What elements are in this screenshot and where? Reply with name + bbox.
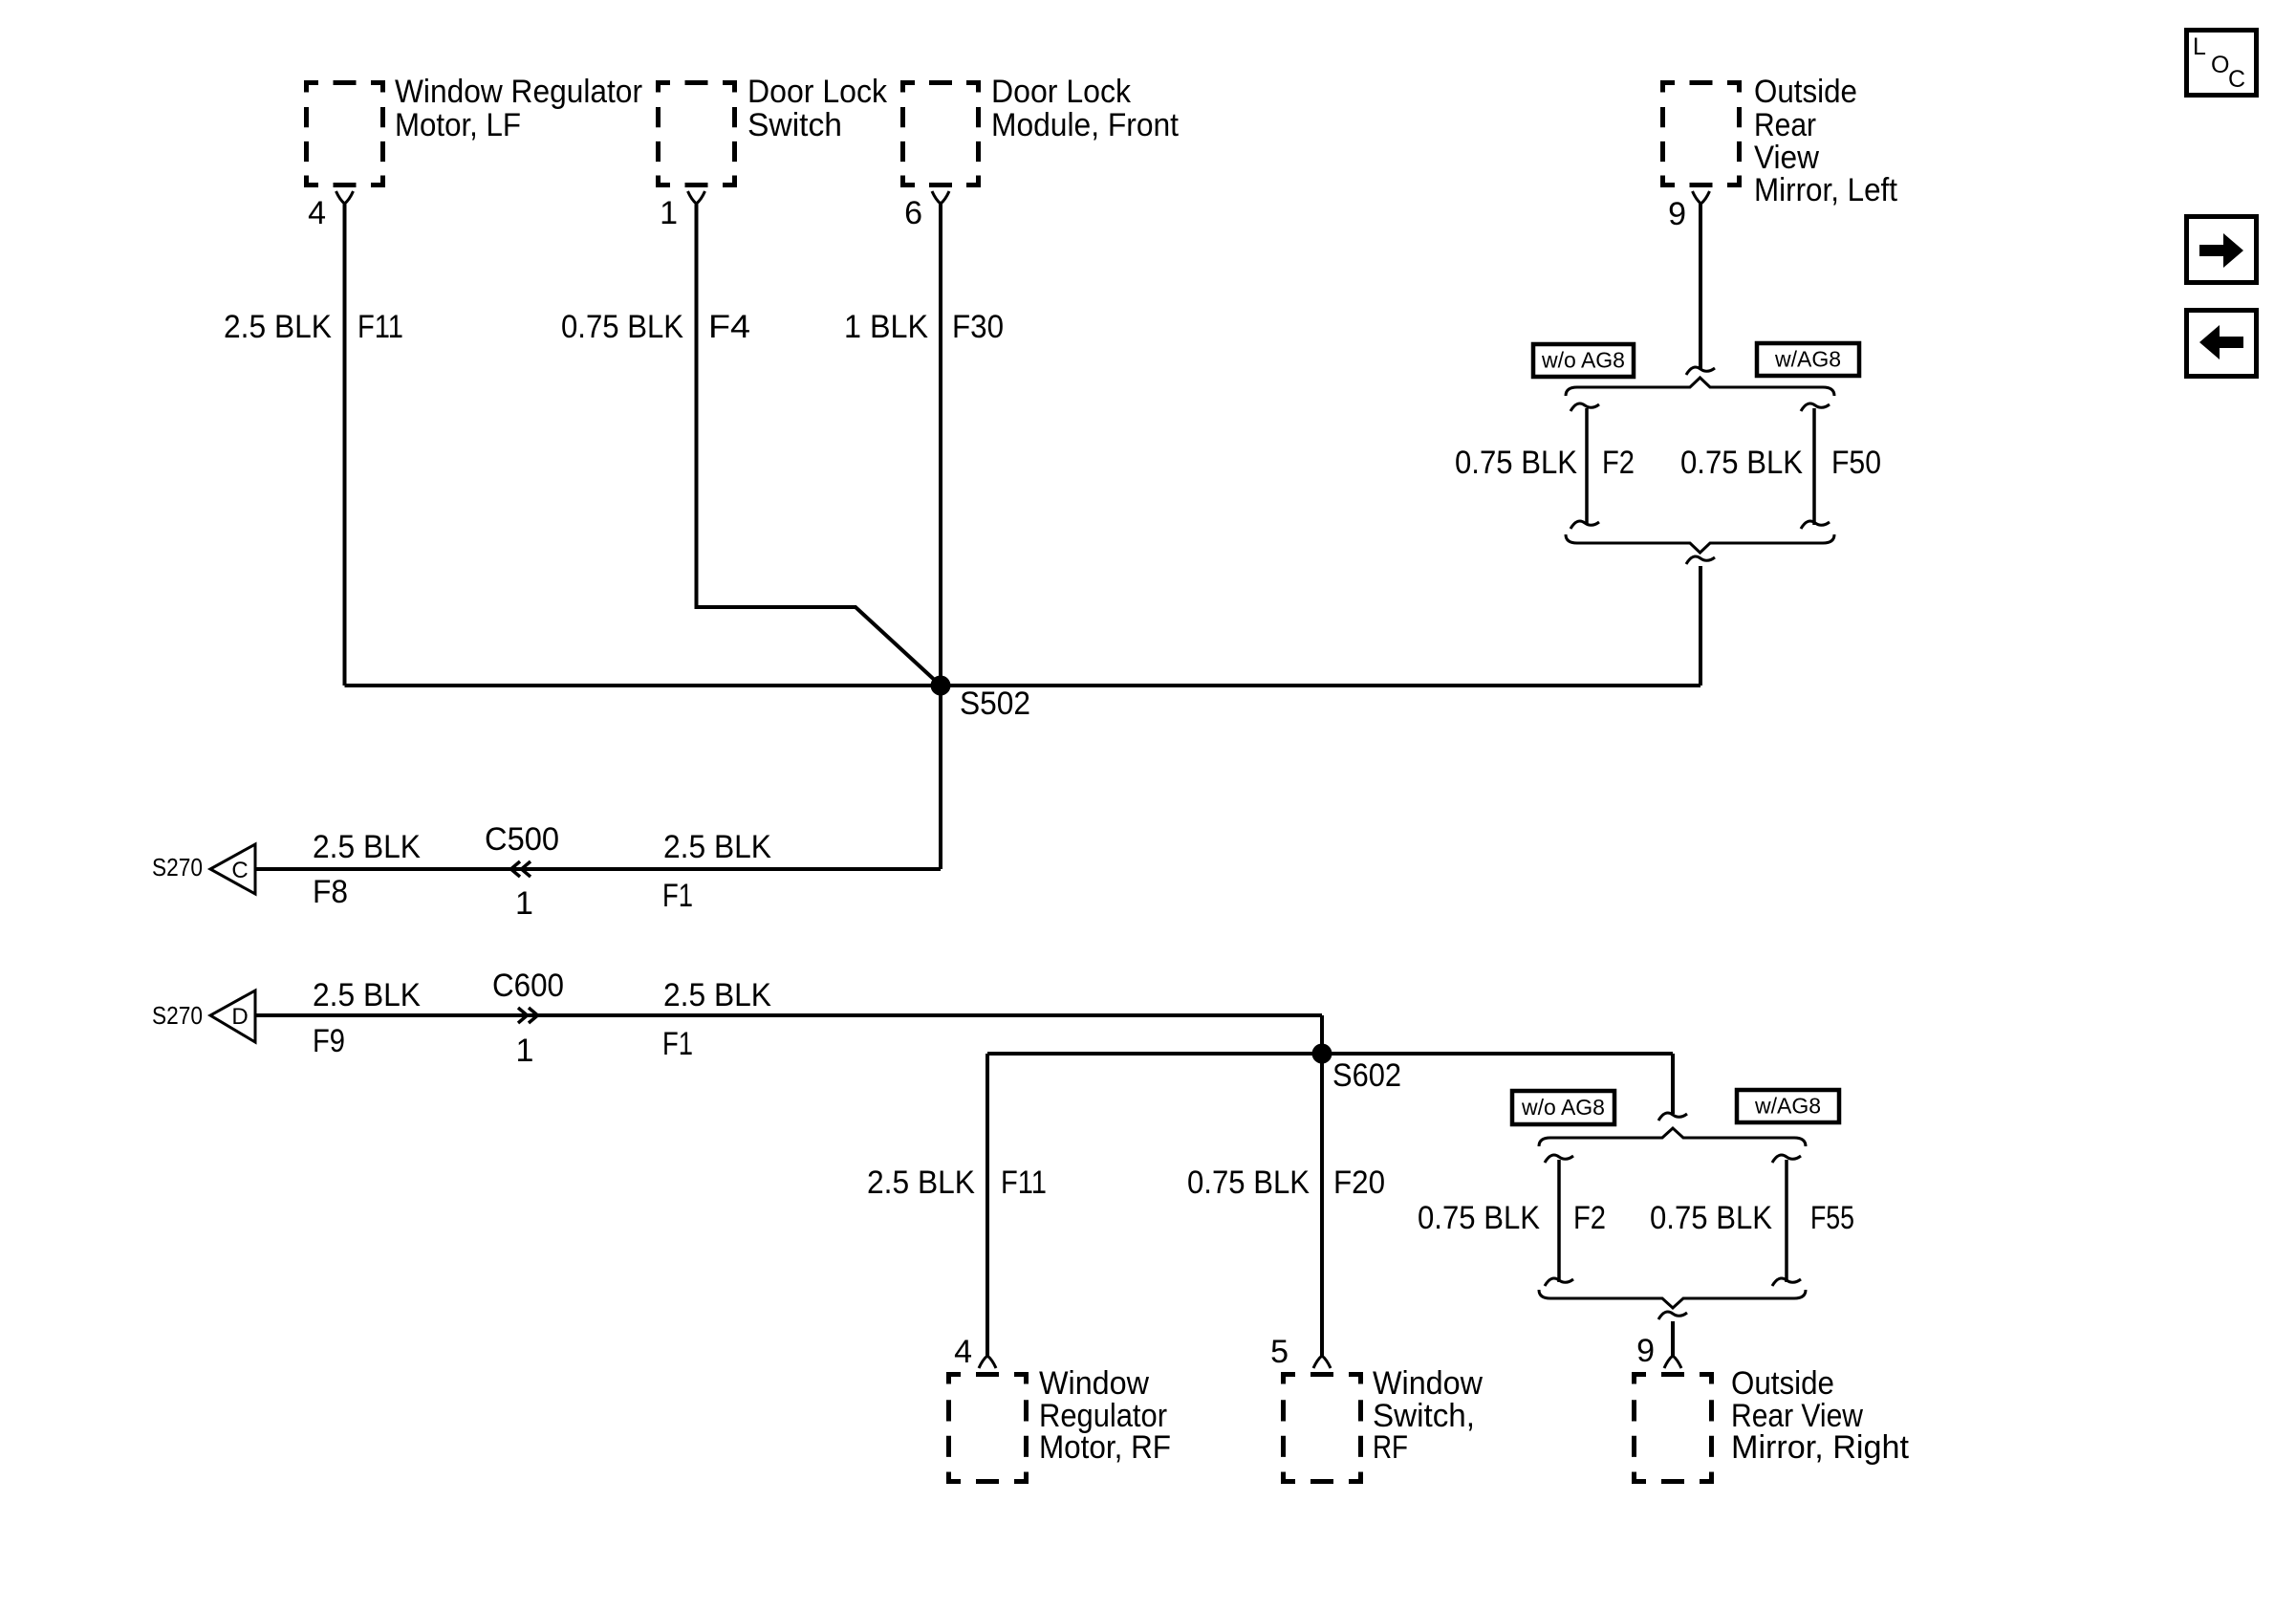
svg-text:F1: F1 xyxy=(662,1026,693,1062)
outside rear view mirror left box xyxy=(1660,80,1742,187)
svg-text:0.75 BLK: 0.75 BLK xyxy=(1680,445,1803,481)
alt wire F2 (bottom group) xyxy=(1545,1155,1573,1163)
svg-text:S502: S502 xyxy=(960,686,1030,722)
svg-text:1: 1 xyxy=(516,1033,534,1069)
svg-text:F30: F30 xyxy=(952,309,1004,345)
svg-text:2.5 BLK: 2.5 BLK xyxy=(313,977,421,1013)
connector marker C600 (double chevron right) xyxy=(518,1008,538,1023)
door lock switch box xyxy=(656,80,737,187)
right arrow nav box xyxy=(2187,217,2257,283)
option box w/o AG8 (bottom) xyxy=(1512,1091,1614,1124)
svg-text:F4: F4 xyxy=(708,309,750,345)
window regulator motor RF box xyxy=(946,1372,1029,1484)
svg-text:S270: S270 xyxy=(152,853,203,882)
pin 1 door lock switch xyxy=(688,191,705,204)
junction S502 xyxy=(931,676,951,696)
wire to bottom option group xyxy=(1671,1054,1675,1114)
break squiggle above mirror right pin xyxy=(1658,1312,1687,1319)
svg-text:C: C xyxy=(231,858,248,883)
S602 ground rail xyxy=(987,1052,1673,1056)
alt wire F2 (top group) xyxy=(1570,403,1599,411)
svg-text:9: 9 xyxy=(1636,1333,1655,1369)
svg-text:S270: S270 xyxy=(152,1001,203,1030)
svg-text:0.75 BLK: 0.75 BLK xyxy=(1455,445,1577,481)
svg-text:Mirror, Left: Mirror, Left xyxy=(1754,172,1898,208)
svg-text:Window Regulator: Window Regulator xyxy=(395,74,642,110)
svg-text:2.5 BLK: 2.5 BLK xyxy=(867,1165,975,1201)
svg-text:RF: RF xyxy=(1373,1429,1408,1466)
bottom brace of option group (opens up) xyxy=(1566,534,1834,553)
wire F11 down to window regulator motor RF xyxy=(986,1054,989,1356)
svg-text:2.5 BLK: 2.5 BLK xyxy=(224,309,332,345)
svg-text:Door Lock: Door Lock xyxy=(747,74,888,110)
connector triangle C (to S270) xyxy=(210,844,255,894)
svg-text:0.75 BLK: 0.75 BLK xyxy=(1650,1200,1772,1236)
svg-text:w/o AG8: w/o AG8 xyxy=(1521,1095,1605,1120)
svg-text:w/AG8: w/AG8 xyxy=(1774,347,1841,372)
left arrow nav box xyxy=(2187,311,2257,377)
break squiggle below top option group xyxy=(1686,556,1715,564)
svg-text:F2: F2 xyxy=(1602,445,1635,481)
svg-text:1: 1 xyxy=(660,195,678,231)
outside rear view mirror right box xyxy=(1632,1372,1714,1484)
junction S602 xyxy=(1312,1044,1332,1064)
svg-text:Switch: Switch xyxy=(747,107,842,143)
wire to mirror right pin 9 xyxy=(1671,1321,1675,1356)
door lock module front box xyxy=(900,80,981,187)
svg-text:Door Lock: Door Lock xyxy=(991,74,1132,110)
svg-text:F50: F50 xyxy=(1831,445,1881,481)
svg-text:F55: F55 xyxy=(1810,1200,1854,1236)
svg-text:0.75 BLK: 0.75 BLK xyxy=(561,309,683,345)
svg-text:6: 6 xyxy=(904,195,922,231)
svg-text:Window: Window xyxy=(1039,1365,1149,1402)
wire S502 down to C500 xyxy=(939,686,942,869)
pin 9 outside rear view mirror right xyxy=(1664,1356,1681,1368)
svg-text:S602: S602 xyxy=(1332,1057,1401,1094)
ground stem from top option group to S502 rail xyxy=(1699,566,1702,686)
pin 9 outside rear view mirror left xyxy=(1693,191,1710,204)
svg-text:F9: F9 xyxy=(313,1023,345,1059)
svg-text:L: L xyxy=(2193,33,2206,60)
svg-text:C: C xyxy=(2228,66,2245,93)
option box w/AG8 (top) xyxy=(1757,343,1859,376)
connector triangle D (to S270) xyxy=(210,991,255,1042)
break squiggle at mirror-left wire end xyxy=(1686,367,1715,375)
LOC icon box xyxy=(2187,31,2257,96)
pin 5 window switch RF xyxy=(1313,1356,1331,1368)
svg-text:Window: Window xyxy=(1373,1365,1483,1402)
break squiggle at S602 branch end xyxy=(1658,1113,1687,1121)
svg-text:F20: F20 xyxy=(1333,1165,1385,1201)
svg-text:1: 1 xyxy=(515,885,533,922)
svg-text:D: D xyxy=(231,1004,248,1030)
wire F4 from door lock switch pin 1 xyxy=(697,204,942,686)
svg-text:Module, Front: Module, Front xyxy=(991,107,1180,143)
pin 4 window regulator motor RF xyxy=(979,1356,996,1368)
svg-text:0.75 BLK: 0.75 BLK xyxy=(1187,1165,1310,1201)
svg-text:9: 9 xyxy=(1668,196,1686,232)
svg-text:O: O xyxy=(2211,52,2229,78)
wire C600 row xyxy=(255,1013,1322,1017)
connector marker C500 (double chevron left) xyxy=(511,861,531,877)
svg-text:F2: F2 xyxy=(1573,1200,1606,1236)
svg-text:4: 4 xyxy=(308,195,326,231)
alt wire F50 (top group) xyxy=(1801,403,1830,411)
svg-text:Rear: Rear xyxy=(1754,107,1816,143)
alt wire F55 (bottom group) xyxy=(1772,1155,1801,1163)
top brace of option group (opens down) xyxy=(1566,378,1834,396)
svg-text:Mirror, Right: Mirror, Right xyxy=(1731,1429,1910,1466)
svg-text:C500: C500 xyxy=(485,821,559,858)
wire F20 down to window switch RF xyxy=(1320,1054,1324,1356)
svg-text:F11: F11 xyxy=(1001,1165,1047,1201)
svg-text:Outside: Outside xyxy=(1754,74,1857,110)
option box w/AG8 (bottom) xyxy=(1737,1090,1839,1122)
pin 6 door lock module front xyxy=(932,191,949,204)
top brace of bottom option group xyxy=(1539,1128,1806,1146)
window regulator motor LF box xyxy=(304,80,385,187)
svg-text:w/AG8: w/AG8 xyxy=(1754,1094,1821,1119)
wire F11 from motor LF pin 4 xyxy=(343,204,347,686)
svg-text:F1: F1 xyxy=(662,878,693,914)
pin 4 window regulator motor LF xyxy=(336,191,354,204)
svg-text:w/o AG8: w/o AG8 xyxy=(1541,348,1625,373)
svg-text:5: 5 xyxy=(1270,1334,1289,1370)
svg-text:Outside: Outside xyxy=(1731,1365,1834,1402)
wire C600 down to S602 rail xyxy=(1320,1015,1324,1054)
svg-text:Motor, LF: Motor, LF xyxy=(395,107,521,143)
svg-text:2.5 BLK: 2.5 BLK xyxy=(663,829,771,865)
svg-text:F11: F11 xyxy=(357,309,403,345)
svg-text:0.75 BLK: 0.75 BLK xyxy=(1418,1200,1540,1236)
option box w/o AG8 (top) xyxy=(1533,344,1634,377)
svg-text:2.5 BLK: 2.5 BLK xyxy=(313,829,421,865)
svg-text:View: View xyxy=(1754,140,1819,176)
wire F30 from door lock module pin 6 xyxy=(939,204,942,686)
svg-text:F8: F8 xyxy=(313,874,348,910)
S502 ground rail xyxy=(345,684,1701,687)
svg-text:Motor, RF: Motor, RF xyxy=(1039,1429,1171,1466)
svg-text:2.5 BLK: 2.5 BLK xyxy=(663,977,771,1013)
svg-text:4: 4 xyxy=(954,1334,972,1370)
wire C500 row xyxy=(255,867,941,871)
window switch RF box xyxy=(1281,1372,1363,1484)
svg-text:1 BLK: 1 BLK xyxy=(844,309,928,345)
wire from mirror left pin 9 xyxy=(1699,204,1702,369)
bottom brace of bottom option group xyxy=(1539,1290,1806,1308)
svg-text:C600: C600 xyxy=(492,968,564,1004)
